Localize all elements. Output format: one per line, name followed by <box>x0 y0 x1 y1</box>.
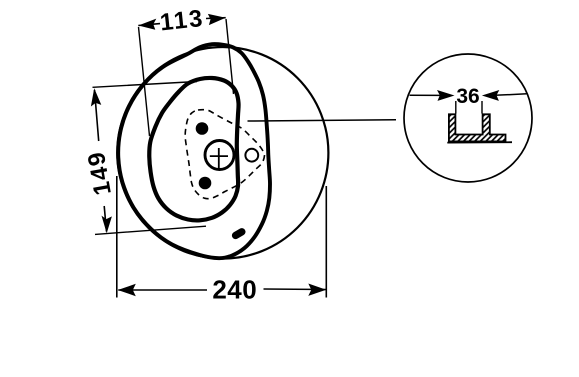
base bottom line <box>447 141 512 143</box>
detail: 36 dimension lines with inward arrows <box>410 94 528 96</box>
leader line to detail <box>248 120 397 121</box>
dim 149: extension lines <box>93 82 207 235</box>
detail: 36 extension lines <box>456 101 482 114</box>
dim 149: dimension line + arrows <box>95 90 107 232</box>
detail circle <box>404 54 532 182</box>
outer circle (240 dia) <box>117 47 328 259</box>
dim 113: dimension line + arrows <box>138 18 225 26</box>
dim 113: extension lines <box>139 19 234 136</box>
small open hole <box>245 149 258 162</box>
dim 240: extension lines <box>117 176 326 298</box>
svg-text:113: 113 <box>159 5 206 36</box>
small black blob (slot) <box>231 227 247 241</box>
center hub circle with cross <box>205 141 234 170</box>
inner cutout contour <box>149 78 238 220</box>
detail: channel cross-section profile (hatched) <box>449 114 506 141</box>
top mounting hole (solid dot) <box>196 122 209 135</box>
bottom mounting hole (solid dot) <box>199 177 212 190</box>
svg-text:36: 36 <box>456 85 479 108</box>
part outer boundary (thick) <box>118 44 270 258</box>
dim 240: dimension line + arrows <box>118 289 325 290</box>
svg-text:240: 240 <box>212 275 257 305</box>
dashed hole-pattern triangle <box>185 110 264 199</box>
